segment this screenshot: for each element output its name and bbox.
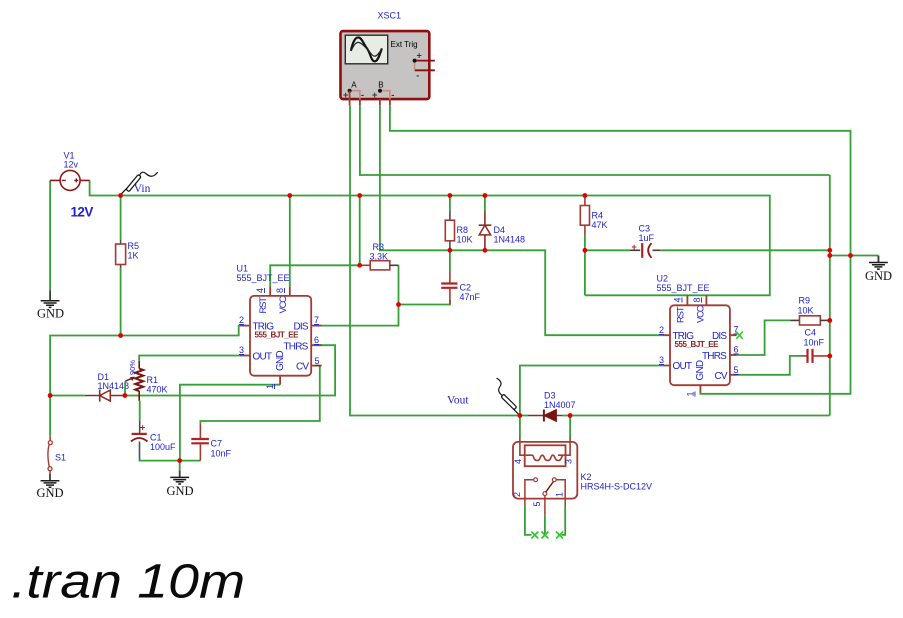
U2 pin 4 and pin 8 stubs bbox=[687, 295, 706, 305]
svg-text:Ext Trig: Ext Trig bbox=[391, 40, 418, 49]
svg-text:555_BJT_EE: 555_BJT_EE bbox=[237, 273, 290, 283]
wire: R8 top lead bbox=[449, 196, 451, 211]
junction: rail/R3 drop bbox=[357, 193, 362, 198]
svg-text:1K: 1K bbox=[128, 251, 139, 261]
svg-text:R9: R9 bbox=[799, 296, 811, 306]
svg-text:C7: C7 bbox=[211, 439, 223, 449]
wire: U2 GND pin to right riser bbox=[700, 256, 850, 394]
junction: R5 bottom / U1 TRIG line bbox=[118, 333, 123, 338]
timer U1 555_BJT_EE bbox=[237, 264, 322, 390]
svg-text:THRS: THRS bbox=[702, 351, 727, 362]
junction: ground rail at GND3 bbox=[177, 458, 182, 463]
svg-text:10nF: 10nF bbox=[211, 449, 232, 459]
svg-text:2: 2 bbox=[239, 315, 244, 325]
wire: R5 bottom to TRIG line bbox=[120, 268, 122, 336]
svg-text:OUT: OUT bbox=[673, 361, 692, 372]
svg-text:GND: GND bbox=[275, 351, 286, 371]
junction: rail/U1 VCC bbox=[287, 193, 292, 198]
svg-text:-: - bbox=[361, 90, 364, 101]
wire: Vout rail through D3 to right riser bbox=[520, 175, 830, 416]
svg-text:4: 4 bbox=[673, 297, 683, 302]
wire: U1 RST riser and link to R3 left bbox=[270, 265, 360, 286]
junction: GND line / right riser bbox=[827, 253, 832, 258]
svg-text:GND: GND bbox=[865, 269, 892, 283]
junction: D3 right / relay pin 3 bbox=[568, 413, 573, 418]
U1 pin 1 stub bbox=[279, 376, 281, 385]
K2 coil box bbox=[525, 445, 566, 466]
junction: rail/R4 top bbox=[583, 193, 588, 198]
capacitor C1 bbox=[131, 421, 176, 460]
wire: relay pin2 to X bbox=[525, 506, 532, 535]
svg-text:5: 5 bbox=[532, 501, 542, 506]
capacitor C3 bbox=[630, 224, 661, 258]
svg-text:OUT: OUT bbox=[253, 352, 272, 363]
junction: D1 anode node / S1 bbox=[48, 393, 53, 398]
wire: U2 THRS to R9 bbox=[737, 320, 791, 355]
svg-text:C2: C2 bbox=[460, 283, 472, 293]
capacitor C4 bbox=[801, 328, 830, 363]
wire: V1 to GND bbox=[49, 180, 51, 290]
svg-text:10K: 10K bbox=[798, 306, 814, 316]
junction: rail/R8 top bbox=[448, 193, 453, 198]
wire: S1 drop bbox=[49, 396, 51, 436]
svg-text:3: 3 bbox=[659, 355, 664, 365]
svg-text:CV: CV bbox=[296, 362, 309, 373]
svg-text:+: + bbox=[632, 242, 637, 252]
junction: Vout node / D3 left bbox=[518, 413, 523, 418]
svg-text:Vout: Vout bbox=[447, 395, 469, 407]
svg-text:7: 7 bbox=[314, 315, 319, 325]
svg-text:R5: R5 bbox=[128, 241, 140, 251]
svg-text:VCC: VCC bbox=[696, 305, 707, 323]
svg-text:2: 2 bbox=[512, 492, 522, 497]
svg-text:5: 5 bbox=[734, 365, 739, 375]
svg-text:47nF: 47nF bbox=[460, 292, 481, 302]
svg-text:+: + bbox=[417, 51, 422, 61]
K2 outer body bbox=[513, 442, 577, 499]
capacitor C7 bbox=[191, 424, 231, 461]
wire: relay pin1 to X bbox=[562, 506, 566, 535]
wire: U2 OUT down to Vout node bbox=[520, 366, 664, 416]
ground GND1 (V1) bbox=[37, 290, 64, 320]
ground GND2 (S1) bbox=[37, 474, 64, 500]
wire: TRIG line of U1 bbox=[50, 326, 246, 396]
svg-text:1: 1 bbox=[686, 391, 696, 396]
svg-text:1uF: 1uF bbox=[639, 233, 655, 243]
svg-text:R4: R4 bbox=[592, 211, 604, 221]
U2 pin 2,3 stubs bbox=[664, 335, 671, 365]
wire: R4 bottom green bbox=[584, 235, 586, 251]
svg-text:GND: GND bbox=[695, 360, 706, 380]
no-connect X marks under relay bbox=[531, 532, 538, 539]
svg-text:VCC: VCC bbox=[278, 296, 289, 314]
svg-text:-: - bbox=[416, 71, 419, 81]
svg-text:10K: 10K bbox=[457, 235, 473, 245]
wire: U2 CV to C4 bbox=[737, 356, 801, 375]
svg-text:90%: 90% bbox=[128, 360, 137, 375]
wire: U2 supply riser from C3 rail bbox=[584, 250, 586, 295]
svg-text:GND: GND bbox=[37, 486, 64, 500]
svg-text:10nF: 10nF bbox=[804, 338, 825, 348]
svg-text:+: + bbox=[140, 423, 145, 433]
svg-text:3: 3 bbox=[564, 459, 574, 464]
wire: relay pin5 to X bbox=[544, 515, 546, 535]
source V1 bbox=[50, 151, 93, 220]
junction: R9 right bbox=[827, 318, 832, 323]
svg-text:555_BJT_EE: 555_BJT_EE bbox=[675, 340, 720, 349]
svg-text:5: 5 bbox=[315, 356, 320, 366]
junction: C3 rail / right riser bbox=[827, 248, 832, 253]
junction: R3 left / U1 RST bbox=[357, 263, 362, 268]
wire: scope B- down and right bbox=[390, 105, 851, 255]
junction: R8 bottom node bbox=[448, 248, 453, 253]
svg-text:XSC1: XSC1 bbox=[378, 10, 402, 20]
wire: U1 VCC riser to rail bbox=[289, 196, 291, 287]
svg-text:.tran 10m: .tran 10m bbox=[11, 554, 245, 608]
timer U2 555_BJT_EE bbox=[657, 274, 743, 397]
junction: Vin node at rail/R5 bbox=[118, 193, 123, 198]
svg-text:470K: 470K bbox=[147, 385, 168, 395]
svg-text:1: 1 bbox=[265, 384, 275, 389]
junction: GND line / U2 gnd riser bbox=[848, 253, 853, 258]
resistor R8 bbox=[445, 211, 472, 251]
wire: right GND line bbox=[830, 256, 879, 263]
relay switch contacts bbox=[525, 480, 534, 499]
wire: rail drop to R3 bbox=[359, 196, 361, 266]
oscilloscope XSC1 bbox=[341, 10, 435, 105]
svg-text:12V: 12V bbox=[71, 205, 94, 220]
ground GND3 (C1 rail) bbox=[167, 470, 194, 498]
svg-text:A: A bbox=[351, 80, 357, 89]
wire: D1 line to THRS bbox=[50, 345, 335, 395]
svg-text:RST: RST bbox=[676, 306, 687, 323]
svg-text:555_BJT_EE: 555_BJT_EE bbox=[255, 330, 300, 339]
U1 pin 7,6,5 stubs bbox=[311, 326, 322, 366]
svg-text:R3: R3 bbox=[373, 242, 385, 252]
svg-text:C3: C3 bbox=[639, 224, 651, 234]
U1 body bbox=[250, 296, 311, 376]
potentiometer R1 bbox=[125, 360, 168, 401]
resistor R9 bbox=[790, 296, 830, 326]
svg-text:12v: 12v bbox=[64, 160, 79, 170]
svg-text:B: B bbox=[378, 80, 383, 89]
junction: rail/D4 top bbox=[483, 193, 488, 198]
wire: relay coil feeds bbox=[520, 416, 570, 438]
svg-text:C4: C4 bbox=[805, 328, 817, 338]
svg-text:D4: D4 bbox=[494, 225, 506, 235]
resistor R5 bbox=[116, 240, 139, 268]
XSC1 body bbox=[341, 31, 430, 99]
svg-text:U1: U1 bbox=[237, 264, 249, 274]
junction: D1 cathode / R1 wiper bbox=[123, 393, 128, 398]
svg-text:2: 2 bbox=[659, 325, 664, 335]
svg-text:1N4007: 1N4007 bbox=[544, 400, 576, 410]
XSC1 screen bbox=[345, 35, 387, 64]
junction: C4 right bbox=[827, 354, 832, 359]
resistor R3 bbox=[360, 242, 399, 270]
junction: D4 bottom node bbox=[483, 248, 488, 253]
wire: R5 feed down from rail bbox=[120, 196, 122, 241]
svg-text:-: - bbox=[391, 90, 394, 101]
U2 body bbox=[670, 305, 730, 385]
U1 pin 4 and pin 8 stubs bbox=[270, 287, 290, 296]
V1 circle symbol bbox=[60, 170, 80, 190]
svg-text:GND: GND bbox=[167, 484, 194, 498]
U2 pin 1 stub bbox=[699, 385, 701, 392]
svg-text:3: 3 bbox=[239, 345, 244, 355]
resistor R4 bbox=[580, 196, 607, 235]
svg-text:U2: U2 bbox=[657, 274, 669, 284]
ground GND4 (right) bbox=[865, 256, 892, 284]
wire: OUT of U1 to R1 top bbox=[139, 356, 241, 361]
wire: scope A+ down to Vout rail bbox=[350, 105, 520, 415]
wire: scope A- down and right to right-side vertical bbox=[360, 105, 830, 175]
relay K2 bbox=[512, 437, 652, 539]
svg-text:RST: RST bbox=[258, 297, 269, 314]
wire: ground stub at dot bbox=[179, 461, 181, 471]
svg-text:Vin: Vin bbox=[134, 183, 151, 195]
svg-text:4: 4 bbox=[513, 459, 523, 464]
svg-text:S1: S1 bbox=[55, 453, 66, 463]
svg-text:R1: R1 bbox=[147, 375, 159, 385]
svg-text:555_BJT_EE: 555_BJT_EE bbox=[657, 283, 710, 293]
U2 pin 7,6,5 stubs bbox=[730, 335, 737, 375]
svg-text:C1: C1 bbox=[150, 433, 162, 443]
wire: R1 bottom to C1 bbox=[139, 401, 141, 421]
wire: C1 bottom to ground rail bbox=[140, 460, 201, 461]
svg-text:47K: 47K bbox=[592, 220, 608, 230]
diode D3 bbox=[528, 391, 576, 422]
svg-text:1N4148: 1N4148 bbox=[494, 235, 526, 245]
svg-text:6: 6 bbox=[314, 335, 319, 345]
wire: R3 right to C2 bottom line and U1 DIS bbox=[318, 265, 450, 325]
svg-text:CV: CV bbox=[715, 371, 728, 382]
wire: U1 GND pin to ground bbox=[180, 385, 280, 461]
probe Vout bbox=[447, 378, 520, 415]
no-connect X on U2 DIS bbox=[736, 332, 743, 339]
probe Vin bbox=[121, 172, 158, 195]
relay coil bbox=[520, 437, 570, 461]
svg-text:3.3K: 3.3K bbox=[370, 252, 389, 262]
svg-text:8: 8 bbox=[275, 288, 285, 293]
svg-text:4: 4 bbox=[255, 288, 265, 293]
capacitor C2 bbox=[441, 271, 480, 305]
switch S1 bbox=[48, 435, 66, 474]
svg-text:K2: K2 bbox=[581, 472, 592, 482]
junction: C2 bottom / DIS node bbox=[396, 302, 401, 307]
svg-text:1: 1 bbox=[555, 492, 565, 497]
wire: 12V rail from V1 to right turn bbox=[90, 180, 770, 295]
svg-text:THRS: THRS bbox=[284, 342, 309, 353]
svg-text:R8: R8 bbox=[457, 225, 469, 235]
U1 pin 3 stub bbox=[240, 355, 250, 357]
diode D4 bbox=[479, 211, 525, 251]
svg-text:HRS4H-S-DC12V: HRS4H-S-DC12V bbox=[581, 482, 653, 492]
wire: C3 rail bbox=[585, 249, 830, 251]
wire: C2 top to R8/D4 bottom rail bbox=[449, 250, 451, 271]
svg-text:+: + bbox=[372, 90, 378, 101]
svg-text:D3: D3 bbox=[544, 391, 556, 401]
svg-text:100uF: 100uF bbox=[150, 442, 176, 452]
XSC1 channel pin stubs bbox=[350, 91, 390, 106]
wire: D4 top lead bbox=[484, 196, 486, 211]
U1 pin 2 stub bbox=[240, 325, 250, 327]
wire: scope B+ down to bottom rail to U2 TRIG bbox=[380, 105, 664, 335]
svg-text:6: 6 bbox=[734, 345, 739, 355]
svg-text:GND: GND bbox=[37, 307, 64, 321]
svg-text:8: 8 bbox=[692, 297, 702, 302]
diode D1 bbox=[85, 372, 129, 402]
junction: R4 bottom / C3 rail bbox=[583, 248, 588, 253]
wire: U1 CV to C7 bbox=[200, 366, 319, 424]
